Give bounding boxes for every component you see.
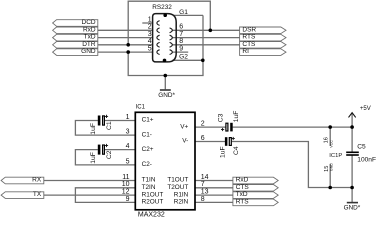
svg-text:RTS: RTS xyxy=(242,34,256,41)
svg-text:100nF: 100nF xyxy=(357,156,376,163)
svg-text:GND*: GND* xyxy=(344,205,361,212)
svg-text:T1OUT: T1OUT xyxy=(167,177,188,184)
svg-text:GND*: GND* xyxy=(158,92,175,99)
svg-text:4: 4 xyxy=(148,38,152,45)
svg-text:1: 1 xyxy=(126,114,130,121)
svg-text:12: 12 xyxy=(122,189,130,196)
svg-text:14: 14 xyxy=(201,174,209,181)
svg-text:1uF: 1uF xyxy=(90,123,97,135)
svg-text:CTS: CTS xyxy=(236,184,250,191)
svg-text:2: 2 xyxy=(201,121,205,128)
svg-text:13: 13 xyxy=(201,189,209,196)
svg-text:RxD: RxD xyxy=(236,177,249,184)
svg-text:5: 5 xyxy=(126,158,130,165)
svg-text:TxD: TxD xyxy=(84,34,96,41)
svg-text:C1: C1 xyxy=(106,121,113,130)
svg-text:R2OUT: R2OUT xyxy=(142,199,164,206)
svg-text:RS232: RS232 xyxy=(152,4,172,11)
svg-text:GND: GND xyxy=(329,163,333,171)
svg-text:7: 7 xyxy=(179,31,183,38)
svg-text:9: 9 xyxy=(126,196,130,203)
svg-text:RI: RI xyxy=(242,48,249,55)
svg-text:R1OUT: R1OUT xyxy=(142,191,164,198)
svg-text:RX: RX xyxy=(32,177,42,184)
svg-text:V+: V+ xyxy=(180,123,188,130)
svg-text:+5V: +5V xyxy=(360,106,371,112)
svg-text:7: 7 xyxy=(201,181,205,188)
svg-text:G2: G2 xyxy=(179,54,188,61)
svg-text:R2IN: R2IN xyxy=(174,199,189,206)
svg-text:DCD: DCD xyxy=(82,19,96,26)
svg-text:T2IN: T2IN xyxy=(142,184,156,191)
svg-text:C1-: C1- xyxy=(142,131,152,138)
svg-text:MAX232: MAX232 xyxy=(138,211,165,217)
svg-text:2: 2 xyxy=(148,24,152,31)
svg-text:T2OUT: T2OUT xyxy=(167,184,188,191)
svg-text:6: 6 xyxy=(201,135,205,142)
svg-text:TX: TX xyxy=(33,191,42,198)
svg-text:DSR: DSR xyxy=(242,26,256,33)
svg-text:GND: GND xyxy=(81,48,96,55)
svg-text:IC1: IC1 xyxy=(136,105,146,111)
svg-text:1uF: 1uF xyxy=(219,146,226,158)
svg-text:DTR: DTR xyxy=(82,41,96,48)
svg-text:R1IN: R1IN xyxy=(174,191,189,198)
svg-text:TxD: TxD xyxy=(236,191,248,198)
svg-text:C2: C2 xyxy=(106,150,113,159)
svg-text:C3: C3 xyxy=(218,113,225,122)
svg-text:RTS: RTS xyxy=(236,198,250,205)
svg-text:4: 4 xyxy=(126,143,130,150)
svg-text:6: 6 xyxy=(179,24,183,31)
svg-text:T1IN: T1IN xyxy=(142,177,156,184)
svg-text:1uF: 1uF xyxy=(233,111,240,123)
svg-text:5: 5 xyxy=(148,46,152,53)
svg-text:11: 11 xyxy=(122,174,129,181)
svg-text:CTS: CTS xyxy=(242,41,256,48)
svg-text:8: 8 xyxy=(179,38,183,45)
svg-text:1: 1 xyxy=(148,16,152,23)
svg-text:C1+: C1+ xyxy=(142,117,154,124)
svg-text:3: 3 xyxy=(148,31,152,38)
svg-text:8: 8 xyxy=(201,196,205,203)
svg-text:RxD: RxD xyxy=(83,26,96,33)
svg-text:10: 10 xyxy=(122,181,130,188)
svg-text:1uF: 1uF xyxy=(90,152,97,164)
svg-text:G1: G1 xyxy=(179,9,188,16)
svg-text:C4: C4 xyxy=(233,146,240,155)
svg-text:IC1P: IC1P xyxy=(329,153,342,159)
svg-text:V-: V- xyxy=(182,138,188,145)
svg-text:3: 3 xyxy=(126,129,130,136)
svg-text:C2+: C2+ xyxy=(142,146,154,153)
svg-text:C2-: C2- xyxy=(142,161,152,168)
svg-text:9: 9 xyxy=(179,46,183,53)
svg-text:C5: C5 xyxy=(357,143,366,150)
svg-text:VCC: VCC xyxy=(329,140,333,148)
